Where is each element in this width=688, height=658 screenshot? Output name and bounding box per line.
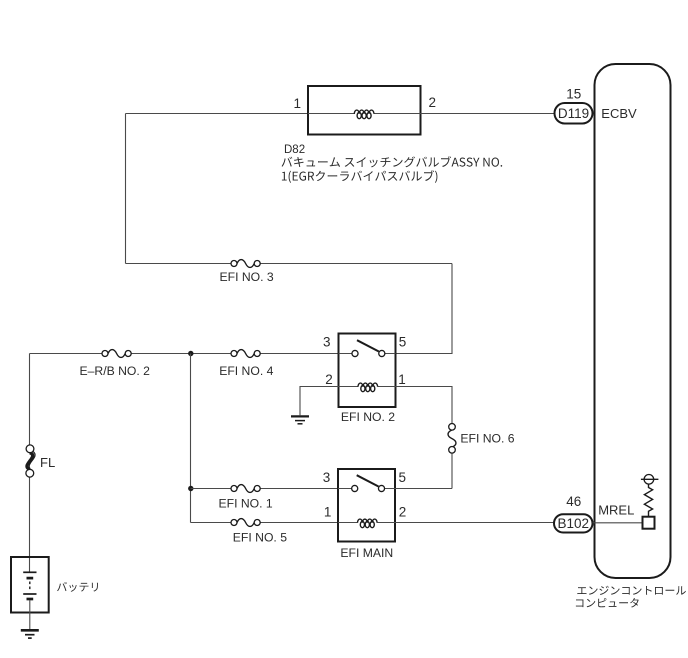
solenoid coil inside D82 <box>354 110 374 119</box>
junction node on EFI NO.1 row <box>188 486 193 491</box>
svg-text:15: 15 <box>566 87 581 102</box>
label line: EGR cooler bypass valve <box>282 170 438 183</box>
wire left column vertical to battery <box>29 354 31 573</box>
fuse EFI NO.4 <box>231 350 260 358</box>
ECU label line 2 <box>576 598 639 608</box>
pin 3 label EFI NO.2 <box>323 335 331 350</box>
pin 1 label EFI MAIN <box>324 504 332 519</box>
connector oval D119 <box>555 103 593 124</box>
svg-text:46: 46 <box>566 494 581 509</box>
relay EFI MAIN switch row wires <box>338 488 395 490</box>
pin 5 label EFI NO.2 <box>399 335 407 350</box>
relay EFI MAIN coil row wires <box>338 522 395 524</box>
wire junction vertical down to EFI NO.5 row <box>190 354 192 523</box>
battery ground symbol <box>21 630 39 638</box>
wire EFI NO.5 row <box>191 522 339 524</box>
fuse EFI NO.6 (vertical) <box>448 424 456 454</box>
internal B+ terminal circle <box>641 475 659 485</box>
pin 3 label EFI MAIN <box>323 470 331 485</box>
svg-text:EFI MAIN: EFI MAIN <box>340 546 393 560</box>
svg-text:5: 5 <box>399 470 407 485</box>
label EFI NO. 4 <box>219 364 273 378</box>
label EFI NO. 1 <box>219 497 273 511</box>
ECBV net label <box>601 106 637 121</box>
relay EFI NO.2 coil <box>358 383 378 392</box>
label EFI NO. 6 <box>460 432 514 446</box>
battery plates <box>23 572 36 599</box>
wire EFI NO.1 row <box>191 488 339 490</box>
svg-text:MREL: MREL <box>598 503 634 518</box>
junction node on main row <box>188 351 193 356</box>
svg-text:D82: D82 <box>284 144 305 156</box>
resistor inside ECU <box>644 484 652 517</box>
wire from top-left corner to D82 pin 1 <box>126 113 309 115</box>
label EFI NO. 2 <box>341 410 395 424</box>
svg-text:ECBV: ECBV <box>601 106 637 121</box>
svg-text:E–R/B NO. 2: E–R/B NO. 2 <box>80 364 151 378</box>
wire EFI NO.3 row <box>126 263 453 265</box>
wire left vertical from top corner down to EFI NO.3 row <box>125 114 127 264</box>
svg-text:1: 1 <box>293 96 301 111</box>
battery box <box>11 557 49 613</box>
relay EFI NO.2 coil row wires <box>339 386 396 388</box>
svg-text:2: 2 <box>325 372 333 387</box>
label FL <box>40 455 55 470</box>
relay EFI MAIN switch contacts <box>352 485 385 491</box>
svg-text:EFI NO. 3: EFI NO. 3 <box>220 270 274 284</box>
fuse EFI NO.5 <box>231 519 260 527</box>
wire relay EFI MAIN pin 2 to connector B102 <box>395 522 554 524</box>
wire battery negative to ground <box>29 600 31 629</box>
fuse EFI NO.1 <box>231 485 260 493</box>
wire relay EFI NO.2 pin 2 to ground <box>300 387 339 416</box>
pin 5 label EFI MAIN <box>399 470 407 485</box>
pin 1 label EFI NO.2 <box>398 372 406 387</box>
relay EFI NO.2 switch contacts <box>352 350 385 356</box>
MREL internal square terminal <box>643 517 655 529</box>
svg-text:EFI NO. 5: EFI NO. 5 <box>233 531 287 545</box>
relay EFI MAIN switch arm <box>357 475 379 486</box>
svg-text:EFI NO. 1: EFI NO. 1 <box>219 497 273 511</box>
wire B102 to MREL square terminal <box>593 522 643 524</box>
ground symbol at relay EFI NO.2 <box>291 416 309 423</box>
pin 2 label EFI MAIN <box>399 504 407 519</box>
wire relay EFI MAIN pin 5 to EFI NO.6 fuse <box>395 488 452 490</box>
fuse EFI NO.3 <box>231 260 260 268</box>
relay EFI NO.2 switch row wires <box>339 353 396 355</box>
relay EFI MAIN coil <box>358 519 378 528</box>
label EFI MAIN <box>340 546 393 560</box>
svg-text:EFI NO. 2: EFI NO. 2 <box>341 410 395 424</box>
pin 46 label <box>566 494 581 509</box>
svg-text:3: 3 <box>323 335 331 350</box>
label E-R/B NO. 2 <box>80 364 151 378</box>
connector oval B102 <box>554 514 593 532</box>
relay EFI NO.2 box <box>339 334 396 408</box>
svg-text:3: 3 <box>323 470 331 485</box>
relay EFI NO.2 switch arm <box>357 340 379 351</box>
wire inside D82 to coil <box>308 113 421 115</box>
label line: vacuum switching valve assy no. <box>282 156 503 167</box>
pin 2 label of D82 <box>429 95 437 110</box>
label EFI NO. 5 <box>233 531 287 545</box>
engine control computer body <box>595 64 671 578</box>
svg-text:1: 1 <box>398 372 406 387</box>
fuse E-R/B NO.2 <box>102 350 131 358</box>
label D82 <box>284 144 305 156</box>
svg-text:EFI NO. 6: EFI NO. 6 <box>460 432 514 446</box>
fusible link FL <box>26 445 35 477</box>
label EFI NO. 3 <box>220 270 274 284</box>
svg-text:2: 2 <box>429 95 437 110</box>
svg-text:2: 2 <box>399 504 407 519</box>
svg-text:EFI NO. 4: EFI NO. 4 <box>219 364 273 378</box>
svg-text:FL: FL <box>40 455 55 470</box>
wire from D82 pin 2 to connector D119 <box>421 113 555 115</box>
wire main row battery to relay pin 3 <box>30 353 339 355</box>
pin 1 label of D82 <box>293 96 301 111</box>
ECU label line 1 <box>577 586 686 595</box>
wire right vertical from EFI NO.3 row down to relay EFI NO.2 pin 5 <box>396 264 453 354</box>
pin 2 label EFI NO.2 <box>325 372 333 387</box>
svg-text:1: 1 <box>324 504 332 519</box>
wire relay EFI NO.2 pin 1 to EFI NO.6 fuse <box>396 387 453 489</box>
svg-text:D119: D119 <box>558 106 589 121</box>
vacuum switching valve D82 box <box>308 86 421 135</box>
label battery <box>57 582 98 592</box>
MREL net label <box>598 503 634 518</box>
svg-text:5: 5 <box>399 335 407 350</box>
svg-text:B102: B102 <box>558 516 590 531</box>
relay EFI MAIN box <box>338 469 395 542</box>
pin 15 label <box>566 87 581 102</box>
